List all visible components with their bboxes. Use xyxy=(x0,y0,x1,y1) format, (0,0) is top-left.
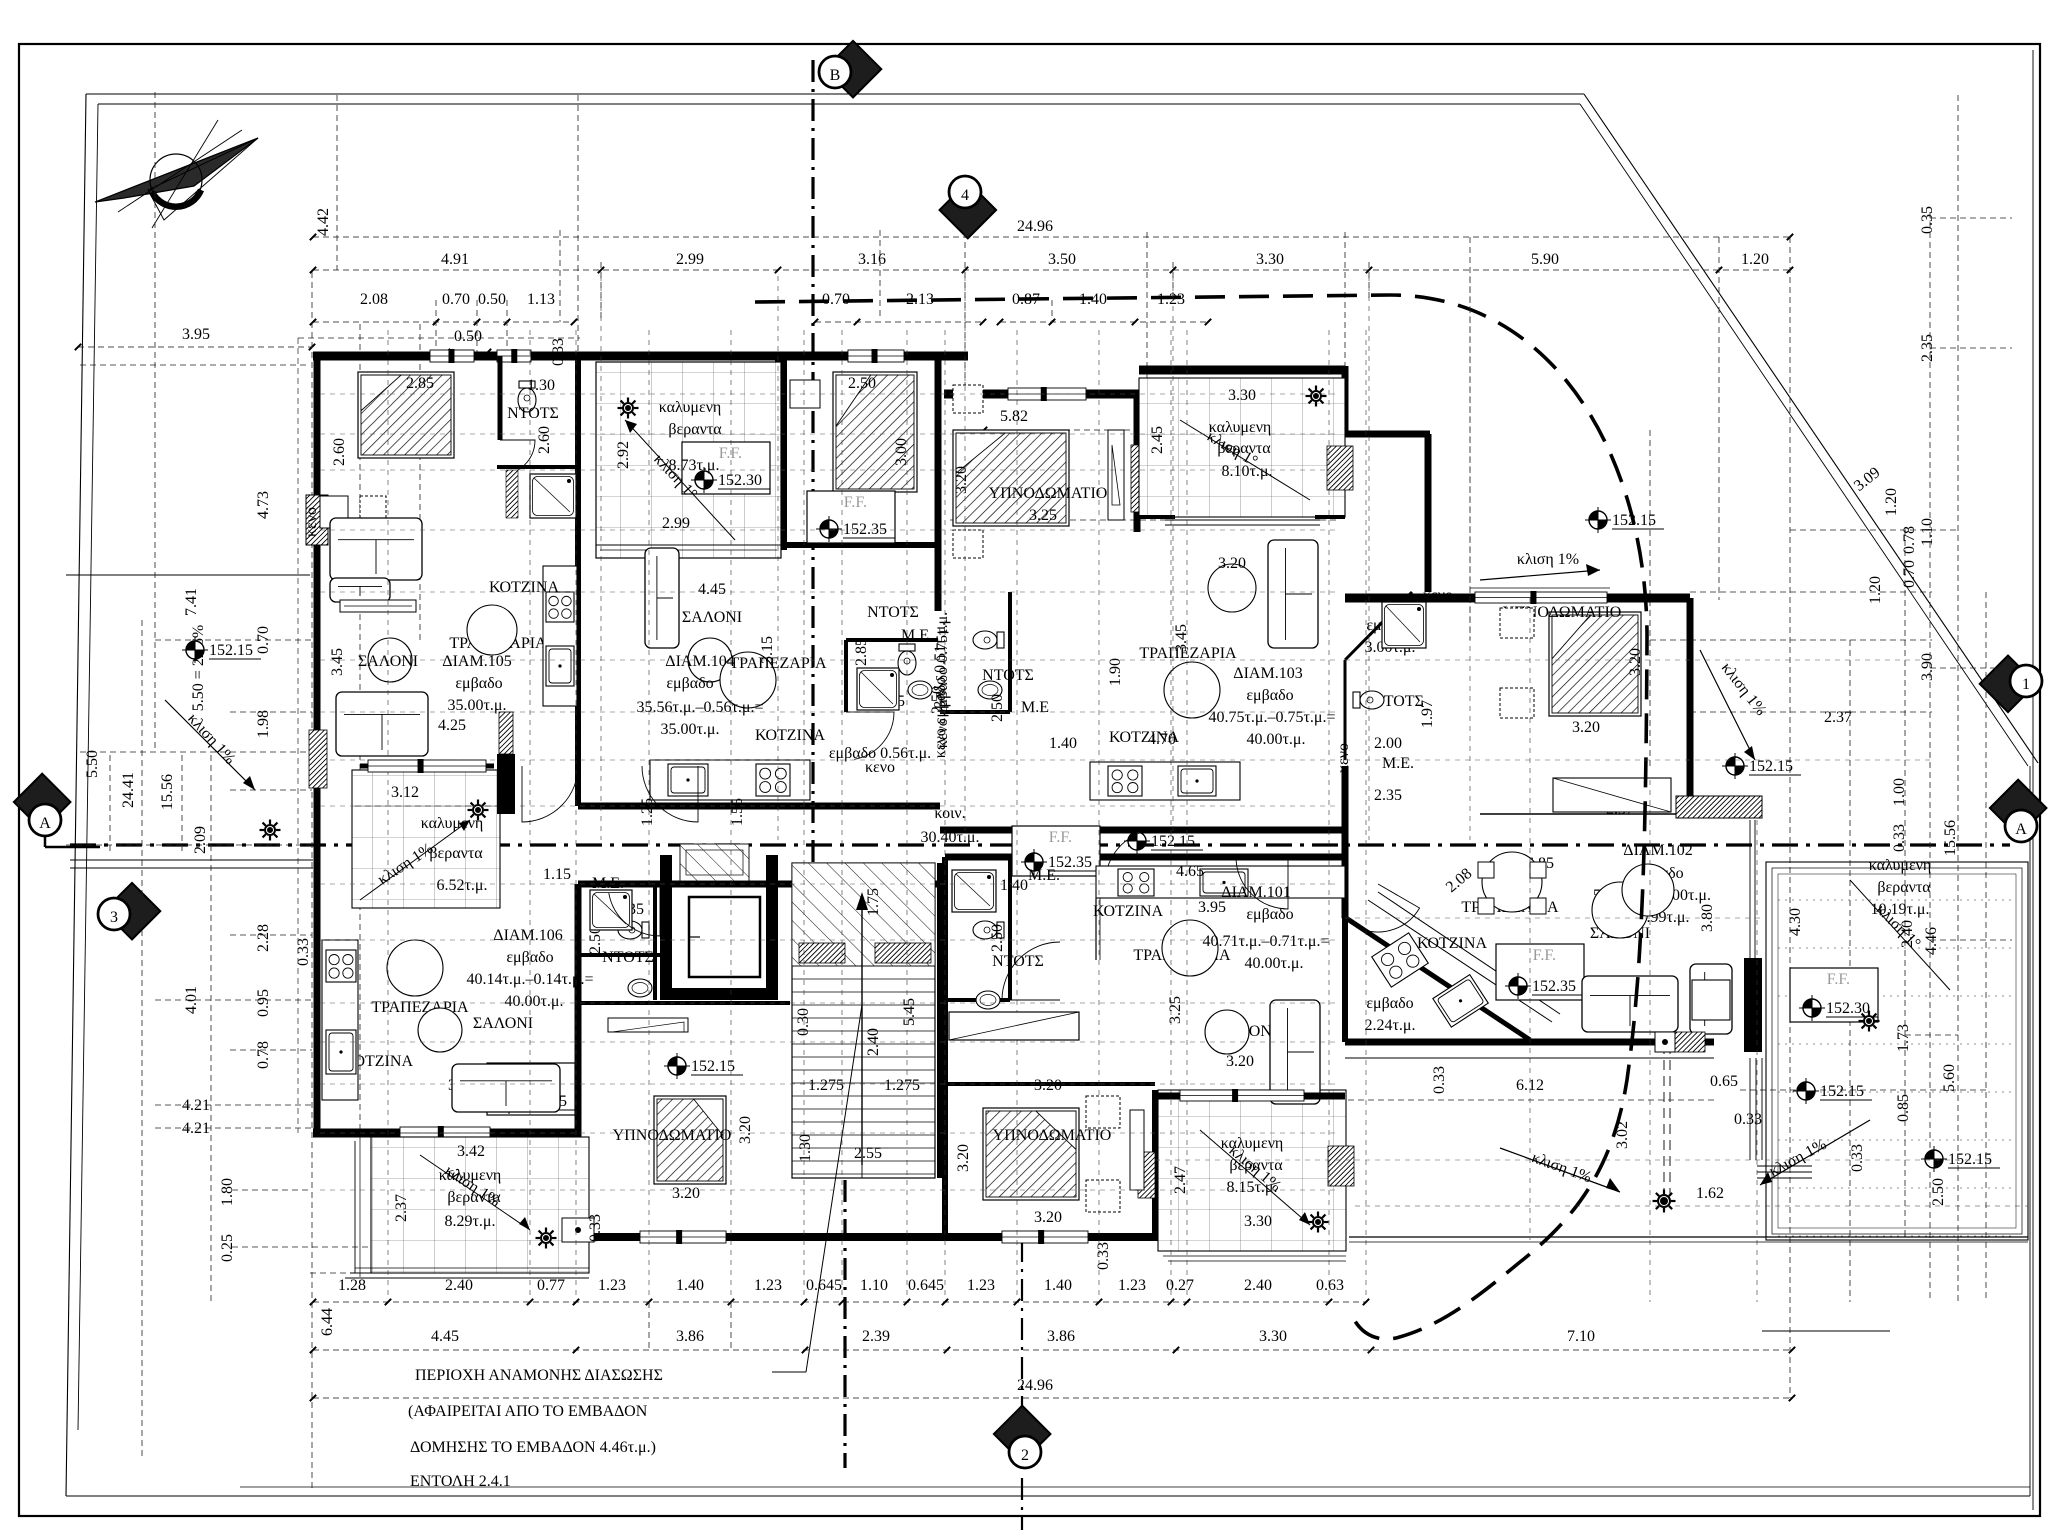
veranda right grid xyxy=(1778,899,2016,901)
wall apt101 bottom xyxy=(947,1233,1158,1241)
dimension row bottom detail xyxy=(313,1301,1366,1303)
grid ref horizontal y=806 xyxy=(320,805,1340,807)
marker 3 left xyxy=(104,883,161,940)
svg-text:0.27: 0.27 xyxy=(1166,1277,1194,1294)
dimension row bottom mid xyxy=(313,1349,1792,1351)
svg-text:0.78: 0.78 xyxy=(255,1041,272,1069)
svg-text:40.71τ.μ.–0.71τ.μ.=: 40.71τ.μ.–0.71τ.μ.= xyxy=(1202,933,1329,950)
grid dashed vertical x=312 xyxy=(311,272,313,1490)
svg-text:6.44: 6.44 xyxy=(319,1308,336,1336)
grid dashed vertical x=1173 xyxy=(1172,262,1174,300)
wall apt103 bedroom right xyxy=(1134,394,1141,532)
sun symbol veranda 8.10 xyxy=(1310,390,1322,402)
grid ref vertical x=1171 xyxy=(1170,330,1172,1296)
wall top apt105-104 xyxy=(313,352,968,361)
bedroom102 window sill xyxy=(1470,587,1610,589)
svg-text:F.F.: F.F. xyxy=(719,445,742,462)
north compass needle hatched blade xyxy=(95,138,258,202)
apt105 nightstand xyxy=(320,496,348,528)
grid dashed vertical x=110 xyxy=(109,755,111,852)
wall apt102 corridor left xyxy=(1342,766,1349,918)
svg-text:5.50: 5.50 xyxy=(84,750,101,778)
section line B vertical upper xyxy=(811,60,814,868)
apt105 kitchen counter xyxy=(543,566,577,706)
svg-text:3.20: 3.20 xyxy=(1034,1209,1062,1226)
svg-text:καλυμενη: καλυμενη xyxy=(659,399,722,416)
apt105 bath wall h xyxy=(497,465,578,469)
wall apt106 bottom xyxy=(313,1129,580,1138)
svg-text:B: B xyxy=(830,67,841,84)
svg-text:4.42: 4.42 xyxy=(315,208,332,236)
svg-text:ΔΙΑΜ.104: ΔΙΑΜ.104 xyxy=(665,653,734,670)
grid ref vertical x=842 xyxy=(841,330,843,1296)
heavy dashed boundary curve xyxy=(755,295,1647,1339)
svg-text:1.25: 1.25 xyxy=(639,798,656,826)
wall corridor top left xyxy=(578,803,940,810)
grid dashed vertical x=1958 xyxy=(1957,95,1959,1302)
svg-text:4.30: 4.30 xyxy=(1787,908,1804,936)
grid dashed horizontal y=348 xyxy=(1930,347,2012,349)
svg-text:0.33: 0.33 xyxy=(1095,1242,1112,1270)
svg-text:M.E.: M.E. xyxy=(1382,755,1414,772)
svg-text:1.30: 1.30 xyxy=(527,377,555,394)
dimension row top-left small xyxy=(313,321,574,323)
svg-text:κενο εμβαδο 0.51τ.μ.: κενο εμβαδο 0.51τ.μ. xyxy=(932,622,949,758)
grid dashed vertical x=1905 xyxy=(1904,530,1906,1240)
svg-text:0.33: 0.33 xyxy=(1431,1066,1448,1094)
svg-text:40.00τ.μ.: 40.00τ.μ. xyxy=(504,993,563,1010)
grid dashed vertical x=1052 xyxy=(1051,300,1053,322)
svg-text:1.97: 1.97 xyxy=(1419,700,1436,728)
svg-text:0.33: 0.33 xyxy=(1849,1144,1866,1172)
window apt104 top xyxy=(848,350,904,362)
grid dashed vertical x=1790 xyxy=(1789,237,1791,1398)
svg-text:καλυμενη: καλυμενη xyxy=(421,815,484,832)
svg-text:εμβαδο: εμβαδο xyxy=(1366,995,1413,1012)
svg-text:2.40: 2.40 xyxy=(1244,1277,1272,1294)
grid dashed horizontal y=1273 xyxy=(310,1272,590,1274)
svg-text:2.37: 2.37 xyxy=(393,1194,410,1222)
grid ref vertical top x=778 xyxy=(777,276,779,840)
svg-text:κενο: κενο xyxy=(303,507,320,537)
sun symbol veranda 8.29 xyxy=(540,1232,552,1244)
corridor door arc xyxy=(1105,829,1160,884)
svg-text:2.35: 2.35 xyxy=(1374,787,1402,804)
apt101 bed xyxy=(983,1108,1079,1200)
svg-text:3.30: 3.30 xyxy=(1259,1328,1287,1345)
svg-text:3.20: 3.20 xyxy=(1034,1077,1062,1094)
wall kitchen102 diagonal xyxy=(1343,916,1530,1040)
svg-text:24.96: 24.96 xyxy=(1017,1377,1053,1394)
window bedroom106 bottom xyxy=(640,1231,726,1243)
bath102 toilet xyxy=(1353,691,1384,709)
veranda 8.73 outline+grid xyxy=(596,362,781,558)
stair landing hatch xyxy=(792,863,935,966)
grid ref vertical x=1187 xyxy=(1186,330,1188,1296)
window apt102 right xyxy=(1749,820,1751,958)
svg-text:2.08: 2.08 xyxy=(360,291,388,308)
svg-text:2.24τ.μ.: 2.24τ.μ. xyxy=(1364,1017,1415,1034)
stair escape hatch b xyxy=(875,943,931,963)
svg-text:152.15: 152.15 xyxy=(691,1058,735,1075)
apt104 dining table xyxy=(720,652,776,708)
hatch pillar apt103 xyxy=(1131,445,1145,512)
sun symbol veranda 8.15 xyxy=(1312,1216,1324,1228)
window apt105 top a xyxy=(430,350,474,362)
svg-text:1.20: 1.20 xyxy=(1867,576,1884,604)
wall corridor bottom right xyxy=(945,854,1345,861)
svg-text:152.35: 152.35 xyxy=(843,521,887,538)
svg-text:1: 1 xyxy=(2022,676,2030,693)
svg-text:ΝΤΟΤΣ: ΝΤΟΤΣ xyxy=(867,604,919,621)
svg-text:1.28: 1.28 xyxy=(338,1277,366,1294)
grid dashed horizontal y=668 xyxy=(1930,667,2012,669)
wall apt106 bedroom right xyxy=(575,884,582,1241)
grid dashed vertical x=1850 xyxy=(1849,640,1851,1302)
svg-text:2.39: 2.39 xyxy=(862,1328,890,1345)
veranda 8.29 outline+grid xyxy=(371,1137,589,1273)
svg-text:1.10: 1.10 xyxy=(1919,518,1936,546)
svg-text:3.20: 3.20 xyxy=(737,1116,754,1144)
bench 152.15 left xyxy=(186,641,204,659)
grid ref vertical x=804 xyxy=(803,330,805,1296)
grid ref vertical x=907 xyxy=(906,330,908,1296)
grid ref vertical x=388 xyxy=(387,330,389,1296)
stair right wall xyxy=(937,863,943,1178)
stair bottom landing xyxy=(792,1177,935,1179)
veranda 8.15 outline+grid xyxy=(1158,1090,1346,1251)
svg-text:1.275: 1.275 xyxy=(808,1077,844,1094)
terrace dashed row right xyxy=(1355,1205,2028,1207)
svg-text:0.35: 0.35 xyxy=(1919,206,1936,234)
svg-text:1.00: 1.00 xyxy=(1891,778,1908,806)
veranda 8.15 klisi xyxy=(1200,1130,1310,1225)
apt105 hatch bath xyxy=(506,470,518,518)
grid ref vertical top x=601 xyxy=(600,276,602,840)
apt105 sofa L xyxy=(330,518,422,580)
svg-text:1.40: 1.40 xyxy=(1049,735,1077,752)
grid dashed vertical x=337 xyxy=(336,95,338,270)
svg-text:0.33: 0.33 xyxy=(587,1214,604,1242)
svg-text:5.90: 5.90 xyxy=(1531,251,1559,268)
hatch pillar veranda 8.10 right xyxy=(1327,446,1353,490)
grid dashed horizontal y=935 xyxy=(230,934,312,936)
svg-text:2.85: 2.85 xyxy=(406,375,434,392)
apt105 toilet xyxy=(518,381,536,412)
svg-text:F.F.: F.F. xyxy=(1827,971,1850,988)
apt106 salon circle xyxy=(418,1008,462,1052)
grid right horizontals xyxy=(1345,659,1930,661)
svg-text:εμβαδο: εμβαδο xyxy=(455,675,502,692)
svg-text:βεραντα: βεραντα xyxy=(1877,879,1931,896)
apt105 dining table xyxy=(467,605,517,655)
svg-text:152.30: 152.30 xyxy=(718,472,762,489)
grid dashed horizontal y=712 xyxy=(1690,711,1932,713)
svg-text:0.33: 0.33 xyxy=(295,938,312,966)
grid dashed horizontal y=365 xyxy=(80,364,310,366)
svg-text:3.86: 3.86 xyxy=(676,1328,704,1345)
veranda 6.52 outline+grid xyxy=(352,770,500,908)
svg-text:2.60: 2.60 xyxy=(536,426,553,454)
svg-text:4.46: 4.46 xyxy=(1923,927,1940,955)
svg-text:1.13: 1.13 xyxy=(527,291,555,308)
sun right veranda xyxy=(1863,1015,1875,1027)
grid dashed vertical x=1147 xyxy=(1146,232,1148,388)
marker 1 right xyxy=(1980,656,2037,713)
grid dashed horizontal y=520 xyxy=(950,519,1340,521)
svg-text:ΔΟΜΗΣΗΣ ΤΟ ΕΜΒΑΔΟΝ 4.46τ.μ.: ΔΟΜΗΣΗΣ ΤΟ ΕΜΒΑΔΟΝ 4.46τ.μ.) xyxy=(410,1439,656,1456)
svg-text:ΤΡΑΠΕΖΑΡΙΑ: ΤΡΑΠΕΖΑΡΙΑ xyxy=(1139,645,1237,662)
grid ref vertical x=530 xyxy=(529,330,531,1296)
grid dashed vertical x=1930 xyxy=(1929,212,1931,1302)
grid ref vertical x=1329 xyxy=(1328,330,1330,1296)
veranda 8.10 outline+grid xyxy=(1139,378,1345,517)
svg-text:2.60: 2.60 xyxy=(331,438,348,466)
apt103 sofa xyxy=(1268,540,1318,648)
grid dashed horizontal y=845 xyxy=(66,844,310,846)
svg-text:A: A xyxy=(39,815,51,832)
apt102 kitchen sink xyxy=(1433,975,1488,1027)
bedroom102 desk xyxy=(1553,778,1671,812)
grid dashed horizontal y=940 xyxy=(1930,939,2012,941)
svg-text:1.10: 1.10 xyxy=(860,1277,888,1294)
sun symbol veranda 6.52 a xyxy=(264,824,276,836)
hatch pillar above post xyxy=(499,712,513,754)
property boundary top line 1 xyxy=(86,93,1584,95)
svg-text:0.30: 0.30 xyxy=(795,1008,812,1036)
apt102 salon circles xyxy=(1592,882,1648,938)
wall bedroom-stair block bottom xyxy=(578,1233,947,1241)
bench 152.15 right upper xyxy=(1726,757,1744,775)
svg-text:1.40: 1.40 xyxy=(1000,877,1028,894)
property bottom inner line xyxy=(240,1486,2030,1488)
grid dashed vertical x=142 xyxy=(141,620,143,1460)
hatch block apt102 bottom end xyxy=(1675,1032,1705,1052)
apt102 FF box xyxy=(1496,944,1584,1000)
svg-text:2.45: 2.45 xyxy=(1149,426,1166,454)
wall apt101 right upper xyxy=(1342,884,1348,1042)
apt105 bath wall v xyxy=(498,356,503,440)
svg-text:0.65: 0.65 xyxy=(1710,1073,1738,1090)
svg-text:1.80: 1.80 xyxy=(219,1178,236,1206)
svg-text:εμβαδο: εμβαδο xyxy=(666,675,713,692)
svg-text:2.50: 2.50 xyxy=(1930,1178,1947,1206)
svg-text:3.20: 3.20 xyxy=(672,1185,700,1202)
veranda right FF box xyxy=(1790,968,1878,1022)
wall apt103 top xyxy=(944,390,1139,399)
grid dashed horizontal y=1090 xyxy=(1740,1089,1988,1091)
grid ref horizontal y=592 xyxy=(320,591,1340,593)
wall veranda-right corner v xyxy=(1342,366,1349,434)
svg-text:3.42: 3.42 xyxy=(457,1143,485,1160)
apt101 dresser xyxy=(949,1012,1079,1040)
apt101 sofa xyxy=(1270,1000,1320,1104)
svg-text:ΚΟΤΖΙΝΑ: ΚΟΤΖΙΝΑ xyxy=(489,579,559,596)
svg-text:1.62: 1.62 xyxy=(1696,1185,1724,1202)
wall apt106 left lower xyxy=(314,808,321,1133)
svg-text:3.20: 3.20 xyxy=(1226,1053,1254,1070)
svg-text:0.33: 0.33 xyxy=(1734,1111,1762,1128)
svg-text:3.00: 3.00 xyxy=(893,438,910,466)
wall left exterior xyxy=(314,352,321,1137)
grid dashed vertical x=420 xyxy=(419,324,421,640)
apt106 dining table xyxy=(387,940,443,996)
grid ref horizontal y=660 xyxy=(320,659,1340,661)
svg-text:152.15: 152.15 xyxy=(1948,1151,1992,1168)
grid dashed horizontal y=752 xyxy=(80,751,312,753)
apt103 salon circle xyxy=(1208,564,1256,612)
apt106 FF box xyxy=(487,1063,575,1115)
apt102 armchair xyxy=(1690,964,1732,1034)
grid ref horizontal y=1003 xyxy=(320,1002,1340,1004)
svg-text:1.15: 1.15 xyxy=(543,866,571,883)
svg-text:3.20: 3.20 xyxy=(1572,719,1600,736)
marker 4 xyxy=(940,182,997,239)
svg-text:4.65: 4.65 xyxy=(1176,863,1204,880)
grid dashed horizontal y=1105 xyxy=(155,1104,312,1106)
grid dashed vertical x=1470 xyxy=(1469,237,1471,640)
grid dashed horizontal y=1035 xyxy=(1905,1034,1958,1036)
page border inner right xyxy=(2032,50,2034,1510)
window apt101 south xyxy=(1180,1090,1304,1101)
apt105 bed xyxy=(358,372,454,458)
svg-text:40.75τ.μ.–0.75τ.μ.=: 40.75τ.μ.–0.75τ.μ.= xyxy=(1208,709,1335,726)
grid ref vertical top x=1470 xyxy=(1469,276,1471,840)
wall corridor bottom left xyxy=(578,881,945,888)
svg-text:2.50: 2.50 xyxy=(989,694,1006,722)
grid ref vertical x=731 xyxy=(730,330,732,1296)
svg-text:1.90: 1.90 xyxy=(1107,658,1124,686)
grid ref horizontal y=760 xyxy=(320,759,1340,761)
svg-text:1.40: 1.40 xyxy=(676,1277,704,1294)
svg-text:βεραντα: βεραντα xyxy=(668,421,722,438)
svg-text:ΠΕΡΙΟΧΗ ΑΝΑΜΟΝΗΣ ΔΙΑΣΩΣΗΣ: ΠΕΡΙΟΧΗ ΑΝΑΜΟΝΗΣ ΔΙΑΣΩΣΗΣ xyxy=(415,1367,663,1384)
terrace edge line right xyxy=(1349,1236,2028,1238)
sun symbol veranda 8.73 xyxy=(622,402,634,414)
svg-text:4.45: 4.45 xyxy=(698,581,726,598)
apt105 sofa2 xyxy=(336,692,428,756)
svg-text:ΔΙΑΜ.102: ΔΙΑΜ.102 xyxy=(1623,842,1692,859)
apt105 stove xyxy=(546,592,574,622)
svg-text:καλυμενη: καλυμενη xyxy=(1869,857,1932,874)
grid ref horizontal y=530 xyxy=(320,529,1340,531)
apt106 bed xyxy=(654,1096,726,1184)
svg-text:κενο: κενο xyxy=(1335,743,1352,773)
wall right step h xyxy=(1345,431,1430,438)
svg-text:35.00τ.μ.: 35.00τ.μ. xyxy=(447,697,506,714)
grid ref horizontal y=1084 xyxy=(320,1083,1340,1085)
svg-text:3.45: 3.45 xyxy=(329,648,346,676)
svg-text:3.30: 3.30 xyxy=(1256,251,1284,268)
hatch pillar veranda 8.15 xyxy=(1328,1146,1354,1186)
grid ref horizontal y=1042 xyxy=(320,1041,1340,1043)
svg-text:κενο: κενο xyxy=(1423,587,1453,604)
grid ref horizontal y=1133 xyxy=(320,1132,1340,1134)
grid offset outline left xyxy=(297,338,299,1133)
svg-text:F.F.: F.F. xyxy=(1049,829,1072,846)
svg-text:ΔΙΑΜ.103: ΔΙΑΜ.103 xyxy=(1233,665,1302,682)
counter kitchen102 diagonal xyxy=(1368,900,1552,1022)
svg-text:M.E.: M.E. xyxy=(1028,867,1060,884)
dimension row top-mid small xyxy=(815,321,983,323)
window apt105 south xyxy=(368,760,486,772)
property boundary diagonal line 2 xyxy=(1580,104,2028,766)
grid ref vertical x=945 xyxy=(944,330,946,1296)
grid dashed horizontal y=1050 xyxy=(230,1049,312,1051)
svg-text:A: A xyxy=(2015,821,2027,838)
right veranda edge ext xyxy=(1749,1058,1751,1160)
grid dashed vertical x=965 xyxy=(964,212,966,392)
apt102 koin entry door xyxy=(1362,884,1420,932)
junction box veranda 8.29 xyxy=(562,1218,594,1242)
grid ref vertical x=1366 xyxy=(1365,330,1367,1296)
svg-text:2.50: 2.50 xyxy=(989,924,1006,952)
svg-text:5.60: 5.60 xyxy=(1941,1064,1958,1092)
apt105 sink xyxy=(546,646,574,686)
apt101 entry door arc xyxy=(1236,857,1288,909)
grid dashed vertical x=1345 xyxy=(1344,232,1346,368)
svg-text:152.35: 152.35 xyxy=(1532,978,1576,995)
svg-text:3.50: 3.50 xyxy=(1048,251,1076,268)
svg-text:2: 2 xyxy=(1021,1447,1029,1464)
window bedroom102 top xyxy=(1475,592,1607,603)
grid dashed horizontal y=640 xyxy=(1650,639,1932,641)
apt104 counter bottom xyxy=(650,760,810,800)
sun symbol veranda 6.52 b xyxy=(472,804,484,816)
apt101 tv2 xyxy=(1130,1110,1144,1190)
corridor bench 152.15 xyxy=(1128,832,1146,850)
apt104 salon circle xyxy=(688,638,732,682)
svg-text:M.E: M.E xyxy=(1021,699,1049,716)
svg-text:3.95: 3.95 xyxy=(182,326,210,343)
svg-text:1.23: 1.23 xyxy=(1118,1277,1146,1294)
svg-text:4.91: 4.91 xyxy=(441,251,469,268)
veranda 6.52 klisi xyxy=(360,820,470,900)
wall apt105 right / veranda left xyxy=(575,360,581,806)
wall apt102 right pillar xyxy=(1744,958,1762,1052)
door arc apt104 entry xyxy=(642,766,698,822)
apt103 bath walls xyxy=(1008,592,1012,712)
bedroom102 nightstands xyxy=(1500,608,1534,638)
svg-text:24.96: 24.96 xyxy=(1017,218,1053,235)
apt104 nightstand xyxy=(790,380,820,408)
svg-text:2.40: 2.40 xyxy=(445,1277,473,1294)
wall veranda-right top xyxy=(1139,366,1345,375)
marker A left xyxy=(14,774,71,831)
apt101 nightstands xyxy=(1086,1096,1120,1128)
veranda 8.10 klisi xyxy=(1180,420,1310,500)
svg-text:0.33: 0.33 xyxy=(1891,824,1908,852)
svg-text:0.645: 0.645 xyxy=(806,1277,842,1294)
svg-text:1.55: 1.55 xyxy=(729,798,746,826)
bench 152.15 topright xyxy=(1589,511,1607,529)
hatch pillar apt101 veranda xyxy=(1138,1152,1155,1198)
veranda right klisi xyxy=(1850,880,1950,990)
door arc apt105 entry xyxy=(522,766,578,822)
bench 152.15 right low xyxy=(1925,1150,1943,1168)
apt105 shower xyxy=(530,474,576,518)
svg-text:4.25: 4.25 xyxy=(438,717,466,734)
apt103 bed xyxy=(953,430,1069,526)
svg-text:1.275: 1.275 xyxy=(884,1077,920,1094)
svg-text:0.50: 0.50 xyxy=(478,291,506,308)
wall apt101 left xyxy=(942,857,948,1237)
grid dashed vertical x=1719 xyxy=(1718,237,1720,600)
grid ref horizontal y=940 xyxy=(320,939,1340,941)
wall bedroom102 top xyxy=(1345,594,1690,603)
svg-text:ΕΝΤΟΛΗ 2.4.1: ΕΝΤΟΛΗ 2.4.1 xyxy=(410,1473,511,1490)
bench 152.15 right mid xyxy=(1797,1082,1815,1100)
